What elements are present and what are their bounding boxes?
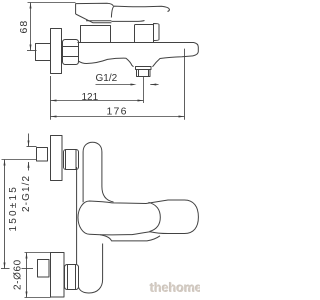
wall pipe end (side view) xyxy=(36,44,51,61)
spout bar top edge (front view) xyxy=(100,235,160,241)
dimension 2-G1/2 leader arrows (front view, top union) xyxy=(27,134,37,171)
svg-text:G1/2: G1/2 xyxy=(96,73,118,84)
extension line at spout tip x=184.2 xyxy=(184,49,186,120)
bottom union: wall pipe end xyxy=(38,260,50,278)
svg-text:2-Ø60: 2-Ø60 xyxy=(13,259,24,290)
top union: flange / escutcheon xyxy=(51,136,63,181)
spout bar left edge sweeping down to bottom union xyxy=(79,244,103,294)
dimension 68 (vertical, left) xyxy=(27,3,76,51)
watermark thehome xyxy=(150,281,205,295)
aerator centerline xyxy=(143,77,145,103)
hex nut (side view) xyxy=(63,40,79,65)
svg-text:150±15: 150±15 xyxy=(8,185,19,232)
handle seam (front view) xyxy=(149,202,161,231)
svg-text:2-G1/2: 2-G1/2 xyxy=(21,175,32,212)
svg-text:176: 176 xyxy=(107,105,128,117)
top union: wall pipe end xyxy=(37,148,48,162)
bottom union: flange / escutcheon xyxy=(51,253,65,298)
body slab and spout top line (side view) xyxy=(78,43,199,56)
diverter box (side view) xyxy=(135,25,154,43)
dimension 150±15 (vertical) xyxy=(1,160,37,269)
top union: hex nut xyxy=(64,150,79,170)
wall flange / escutcheon (side view) xyxy=(51,29,62,74)
cartridge neck (side view) xyxy=(81,26,111,43)
diverter tab (side view) xyxy=(154,24,160,41)
handle lever (side view) xyxy=(76,3,170,23)
body top stem (front view) xyxy=(83,142,113,202)
label G1/2 with leader (side view) xyxy=(96,73,159,86)
extension line at wall plane x=50 xyxy=(50,76,52,120)
dimension 176 xyxy=(51,105,185,117)
body underside and spout underside (side view) xyxy=(78,58,134,67)
handle pill (front view) xyxy=(78,200,198,235)
svg-text:68: 68 xyxy=(18,20,30,34)
aerator (side view) xyxy=(136,67,152,77)
dimension 2-Ø60 (vertical) xyxy=(25,253,51,298)
body left edge (front view) xyxy=(76,167,78,264)
bottom union: hex nut xyxy=(65,265,79,290)
dimension 121 xyxy=(51,92,144,103)
svg-text:121: 121 xyxy=(82,92,99,103)
